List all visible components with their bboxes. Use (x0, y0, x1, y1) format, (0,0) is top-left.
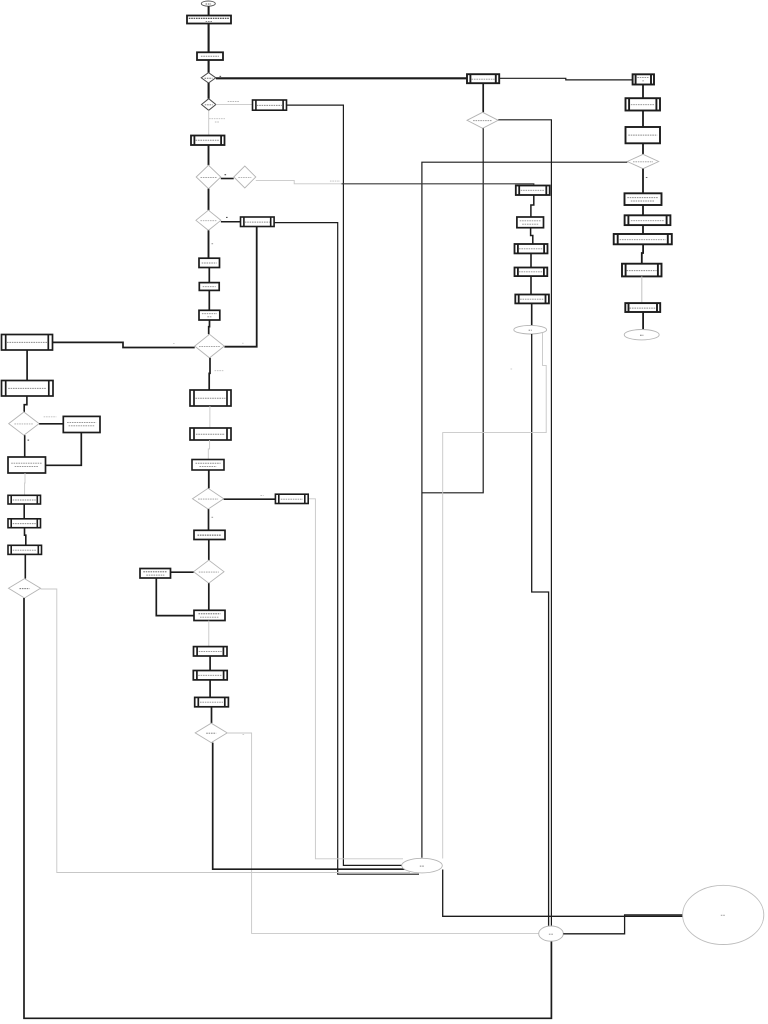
predefined process boxB top right (633, 74, 654, 84)
wire boxB to boxC (642, 85, 644, 99)
predefined process boxI (625, 215, 671, 225)
label yes on diamond1 right (220, 75, 222, 77)
predefined process boxX (275, 494, 308, 503)
light wire diamondZ right down right to ellipse2 (227, 733, 538, 933)
process box140 (140, 569, 171, 579)
wire boxK2 to boxK3 (208, 290, 210, 310)
predefined process boxK (622, 264, 662, 277)
wire boxF to boxG jog (531, 228, 533, 244)
process box2 (197, 52, 223, 60)
wire boxA right to boxB with jog (499, 78, 632, 80)
wire boxD to diamondE (642, 143, 644, 154)
wire boxY2 to boxY3 (209, 680, 211, 698)
wire diamond560 down to boxX2 (208, 583, 210, 610)
wire ellipse1 right down then right to big circle (443, 870, 683, 917)
label no right of diamond3 (225, 174, 227, 176)
process boxP (63, 416, 100, 432)
wire boxM down to boxN (26, 350, 28, 381)
wire boxK1 to boxK2 (208, 268, 210, 283)
wire boxT2 to diamondP2 (24, 554, 26, 578)
start terminator ellipse (201, 1, 215, 6)
dark wire continuing to boxE top (342, 184, 534, 186)
light wire boxX2 to boxY1 (208, 621, 210, 647)
gray label on diamond4 wire (330, 180, 340, 182)
predefined process box3 (191, 136, 225, 146)
predefined process boxS (8, 519, 41, 528)
wire boxG to boxG2 (530, 253, 532, 267)
decision diamondA2 (467, 112, 498, 128)
wire diamondA2 right to far column (498, 120, 551, 926)
predefined process boxN (2, 381, 54, 397)
wire boxH to boxI (642, 205, 644, 215)
predefined process boxM (2, 335, 53, 351)
label no under diamondO (28, 439, 30, 441)
wire box2 to diamond1 (208, 60, 210, 73)
wire diamond1 right to boxA (216, 77, 467, 79)
decision diamondW (193, 488, 224, 509)
wire below ellipseM long down to ellipse2 with jog (532, 334, 549, 926)
wire boxY3 to diamondZ (211, 707, 213, 723)
connector ellipseM (514, 325, 547, 334)
decision diamondE (627, 154, 658, 168)
wire diamond560 left to box140 (171, 571, 194, 573)
light wire boxQ down to boxR (24, 473, 26, 495)
decision diamond2 (202, 99, 216, 111)
wire diamondA2 down then left joining left loop (422, 128, 483, 493)
wire diamondO down to boxQ (24, 435, 26, 457)
wire boxI to boxJ (642, 225, 644, 234)
wire box5R right then long down to ellipse1 (274, 223, 419, 875)
wire diamondW right to boxX (224, 498, 276, 500)
wire boxY1 to boxY2 (209, 656, 211, 671)
faint label right of diamondL (242, 342, 244, 344)
wire boxV to diamondW (208, 470, 210, 488)
gray label right of diamondO (44, 416, 57, 418)
process boxH (625, 193, 662, 205)
predefined process boxG2 (515, 268, 548, 277)
predefined process boxT (190, 390, 231, 406)
wire boxP bottom to boxQ right (46, 433, 82, 466)
process boxX2 (194, 610, 225, 620)
predefined process box5R (241, 217, 275, 227)
predefined process boxL (625, 303, 660, 312)
wire boxN to diamondO jog (24, 396, 27, 412)
gray two line label under diamond2 (209, 118, 225, 120)
decision diamond1 (201, 73, 216, 83)
wire diamondE down to boxH (642, 169, 644, 194)
wire box1 to box2 (208, 24, 210, 53)
wire diamond3 to diamond4 (221, 178, 234, 180)
wire start to box1 (208, 6, 210, 15)
wire boxL to end ellipse right (642, 312, 644, 329)
wire diamondW down to box530 (208, 509, 210, 530)
predefined process boxP1 (253, 100, 287, 110)
wire boxK3 to diamondL jog (208, 320, 211, 334)
predefined process boxC (626, 98, 661, 110)
wire diamond5 down to boxK1 (208, 230, 210, 258)
wire boxC to boxD (642, 111, 644, 128)
process boxD (626, 127, 661, 143)
predefined process boxR (8, 495, 41, 504)
gray label right of diamond2 (228, 101, 240, 103)
wire diamondO right to boxP (39, 423, 63, 425)
tiny label under diamond5 (212, 243, 214, 245)
wire box5R bottom down to diamondL right (224, 227, 256, 347)
decision diamondZ (195, 723, 227, 742)
decision diamondO (9, 412, 39, 435)
predefined process boxT2 (8, 545, 42, 554)
light wire from boxX right going down to ellipse1 (308, 499, 403, 859)
wire box140 down then right to boxX2 (156, 578, 194, 616)
wire diamondP2 bottom big loop to bottom right (24, 598, 551, 1018)
process box1 initialise (187, 16, 231, 24)
wire ellipse2 right up right to big circle (563, 915, 682, 934)
process box530 (194, 530, 225, 539)
predefined process boxY1 (194, 647, 228, 656)
wire boxR to boxS (23, 504, 25, 519)
predefined process boxJ (614, 234, 672, 244)
wire boxA down to diamondA2 (482, 83, 484, 112)
wire boxE to boxF jog (531, 195, 534, 217)
process boxF (517, 217, 544, 228)
wire diamond3 down to diamond5 (208, 189, 210, 211)
decision diamond3 large (196, 165, 221, 188)
decision diamond5 (196, 210, 221, 230)
faint label left of diamondL (173, 342, 175, 344)
wire diamond5 right to box5R (221, 221, 241, 223)
light wire diamond4 right with jog (256, 180, 342, 183)
label yes right of diamondW (260, 494, 263, 496)
wire box530 to diamond560 (208, 540, 210, 561)
wire diamondL down jog (208, 358, 211, 390)
light wire boxK to boxL (641, 276, 643, 303)
predefined process boxY2 (193, 671, 227, 680)
wire boxP1 right then long down to bottom ellipse1 (287, 105, 404, 865)
process boxQ (8, 457, 46, 473)
faint label right of diamondZ (243, 734, 245, 736)
predefined process boxY3 (195, 697, 229, 706)
connector ellipse2 (539, 926, 564, 941)
label y below diamondE (646, 176, 648, 178)
light wire boxU to boxV jog (208, 440, 209, 460)
wire boxJ to boxK jog (642, 244, 643, 263)
process boxK1 (199, 258, 220, 267)
wire diamond1 to diamond2 (208, 83, 210, 99)
predefined process boxG3 (515, 295, 549, 304)
decision diamond4 (234, 166, 256, 188)
wire boxG3 to ellipseM (531, 303, 533, 325)
end terminator ellipse right column (624, 330, 659, 340)
faint stray label (511, 368, 513, 370)
wire box3 to diamond3 (208, 145, 210, 165)
label no right of diamond5 (226, 216, 228, 218)
decision diamond560 (194, 560, 224, 583)
light wire diamond2 to boxP1 (216, 104, 253, 106)
light wire from ellipseM right down to y432 then left to x443 then down to ellipse1 (443, 333, 547, 859)
wire diamondZ down then right to ellipse1 (213, 743, 405, 870)
tiny label above box530 (212, 516, 214, 518)
predefined process boxU (190, 428, 231, 440)
wire diamondE left long loop to left vertical (422, 162, 627, 858)
light wire boxT to boxU (209, 406, 211, 428)
predefined process boxE (516, 186, 550, 196)
predefined process boxG (515, 244, 548, 253)
process boxV (192, 460, 224, 471)
connector ellipse1 (402, 858, 443, 873)
predefined process boxA (467, 74, 499, 83)
wire boxS to boxT2 jog (25, 528, 26, 546)
decision diamondL (195, 334, 225, 358)
big state circle (683, 885, 764, 944)
decision diamondP2 (9, 579, 41, 598)
process boxK3 (199, 310, 220, 320)
wire boxM right to diamondL left with jog (53, 342, 195, 347)
wire boxG2 to boxG3 (530, 276, 532, 294)
light wire diamondP2 right then down then right to ellipse1 (41, 589, 411, 873)
light wire diamond2 down to box3 (208, 110, 210, 135)
gray label otherwise under diamondL (215, 370, 225, 372)
process boxK2 (199, 283, 219, 291)
